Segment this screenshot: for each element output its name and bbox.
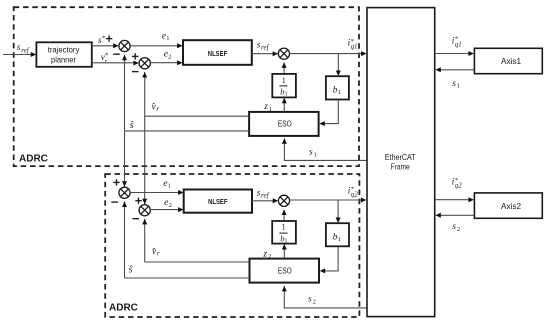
svg-text:1: 1 [282,76,286,85]
wire vertical V2 (v*r reference down to ADRC2 / feedback vr-hat up into S1b) [142,72,147,205]
ADRC block 2 dashed border [105,174,359,317]
wire vr-hat feedback vertical into S2b [142,219,147,262]
block EtherCAT Frame [367,8,435,317]
block ESO (ADRC2) [250,259,320,283]
wire e1 (S1a to NLSEF1) [130,43,182,48]
wire s-hat feedback (ESO1 to V1) [125,130,250,132]
svg-text:Axis1: Axis1 [501,56,521,66]
plus sign at S2b [135,198,141,204]
wire vertical V1 (s* reference down to ADRC2 / feedback s-hat up into S1a) [122,55,127,187]
summing junction S2a [119,187,130,198]
wire b1 to ESO2 [320,246,338,273]
svg-text:planner: planner [51,56,76,65]
minus sign at S2a [111,201,118,203]
svg-text:ADRC: ADRC [109,303,138,314]
wire s1 (Axis1 to EtherCAT) [435,67,474,72]
svg-text:trajectory: trajectory [48,45,80,54]
svg-text:ADRC: ADRC [19,154,48,165]
summing junction S1a [119,40,130,51]
block NLSEF (ADRC1) [183,40,252,65]
wire e1 (S2a to NLSEF2) [130,190,183,195]
svg-text:NLSEF: NLSEF [208,49,228,58]
svg-text:ŝ: ŝ [130,120,134,131]
wire s-hat feedback (ESO2 left) [125,277,250,279]
wire iq1* (EtherCAT to Axis1) [435,51,474,56]
summing junction S1b [139,58,150,69]
wire b1 to ESO1 [319,100,338,127]
wire iq2* (M2 to EtherCAT frame) [290,198,367,203]
block Axis1 [474,48,542,73]
wire sref (NLSEF2 to multiplier M2) [252,198,278,203]
summing junction S2b [139,205,150,216]
block b1 (ADRC1) [326,76,349,99]
multiplier M1 [278,48,289,59]
wire z1 (ESO1 to 1/b1) [282,98,287,112]
wire s2 (Axis2 to EtherCAT) [435,213,474,218]
svg-text:ESO: ESO [278,266,292,275]
svg-text:ŝ: ŝ [129,264,133,275]
plus sign at S1a [106,35,112,41]
wire branch to b1 (ADRC2) [336,200,341,223]
minus sign at S1b [132,71,139,73]
wire iq1* (M1 to EtherCAT frame) [290,51,367,56]
block 1/b1 (ADRC2) [272,221,296,245]
wire 1/b1 to M1 (ADRC1) [282,62,287,74]
svg-text:NLSEF: NLSEF [208,197,228,206]
wire e2 (S1b to NLSEF1) [150,60,182,65]
svg-text:1: 1 [282,222,286,231]
wire e2 (S2b to NLSEF2) [150,207,183,212]
block 1/b1 (ADRC1) [272,74,296,98]
minus sign at S1a [113,53,120,55]
wire z2 (ESO2 to 1/b1) [282,244,287,259]
wire vr-hat feedback (ESO1 to V2) [145,115,249,117]
ADRC block 1 dashed border [14,7,359,166]
wire vr-hat feedback (ESO2 left) [145,261,250,263]
svg-text:Axis2: Axis2 [501,201,521,211]
wire branch to b1 (ADRC1) [336,54,341,76]
block NLSEF (ADRC2) [184,190,252,213]
block Axis2 [474,193,542,218]
wire s* (trajectory planner to sum S1a) [92,43,119,48]
block trajectory planner [36,42,91,67]
wire sref (NLSEF1 to multiplier M1) [252,51,278,56]
svg-text:ESO: ESO [278,120,292,129]
plus sign at S2a [113,179,119,185]
minus sign at S2b [132,218,139,220]
wire iq2* (EtherCAT to Axis2) [435,197,474,202]
wire 1/b1 to M2 (ADRC2) [282,210,287,222]
wire v*r (trajectory planner to sum S1b) [92,61,139,66]
wire s2 (EtherCAT to ESO2) [282,286,367,308]
block ESO (ADRC1) [249,112,319,136]
plus sign at S1b [132,53,138,59]
block b1 (ADRC2) [326,223,349,246]
wire sref input [3,52,36,57]
wire s-hat feedback vertical into S2a [122,202,127,279]
multiplier M2 [278,195,289,206]
svg-text:Frame: Frame [391,162,410,172]
svg-text:EtherCAT: EtherCAT [385,152,416,162]
wire s1 (EtherCAT to ESO1) [282,138,367,160]
